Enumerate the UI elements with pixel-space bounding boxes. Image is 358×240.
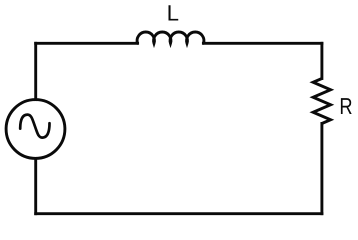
label L bbox=[169, 5, 179, 20]
resistor R1 bbox=[313, 79, 331, 124]
ac source V1: sine wave bbox=[20, 115, 49, 138]
wire left-upper segment bbox=[34, 43, 37, 99]
label R bbox=[341, 98, 352, 114]
wire top-right segment bbox=[203, 42, 322, 45]
wire bottom segment bbox=[36, 212, 322, 215]
wire top-left segment bbox=[36, 42, 138, 45]
wire right-upper segment bbox=[320, 43, 323, 78]
ac source V1: circle bbox=[6, 100, 65, 159]
inductor L1 bbox=[137, 32, 204, 43]
wire left-lower segment bbox=[34, 158, 37, 213]
wire right-lower segment bbox=[320, 124, 323, 214]
